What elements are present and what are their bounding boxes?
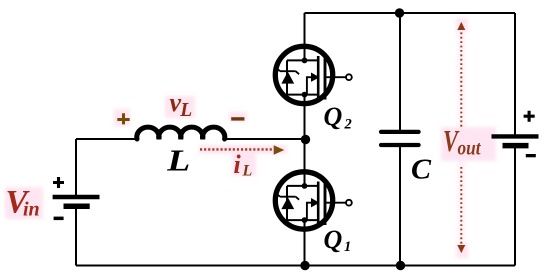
svg-text:i: i [234, 150, 242, 179]
svg-text:L: L [166, 142, 190, 177]
svg-text:L: L [179, 100, 192, 121]
svg-text:out: out [458, 138, 482, 160]
svg-text:L: L [242, 162, 253, 179]
svg-text:1: 1 [344, 239, 351, 255]
svg-text:Q: Q [324, 225, 343, 254]
svg-text:2: 2 [344, 117, 352, 133]
svg-text:in: in [23, 199, 40, 221]
svg-text:Q: Q [324, 102, 343, 131]
svg-text:C: C [411, 154, 432, 186]
